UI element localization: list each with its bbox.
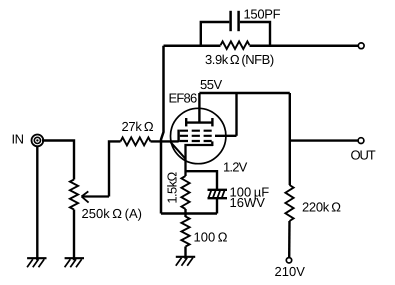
wire wiper riser to grid line: [109, 141, 121, 196]
wire jack to pot top: [42, 141, 74, 180]
capacitor 100uF plates: [208, 190, 228, 198]
capacitor 150PF plates: [231, 11, 239, 31]
potentiometer 250k ohm (A): [70, 180, 78, 210]
grid g3 row 2 (dashed): [180, 135, 212, 137]
svg-text:210V: 210V: [275, 264, 306, 279]
svg-text:1.5kΩ: 1.5kΩ: [165, 171, 180, 203]
anode lead: [198, 93, 200, 123]
svg-text:250k Ω (A): 250k Ω (A): [82, 206, 142, 221]
grid g2 row 1 (dashed): [180, 130, 212, 132]
wire 1.5k bottom stub: [184, 209, 186, 214]
resistor 100 ohm: [181, 217, 189, 247]
terminal OUT: [358, 138, 364, 144]
svg-text:3.9k Ω (NFB): 3.9k Ω (NFB): [205, 52, 274, 67]
ground under 100 ohm: [176, 257, 195, 266]
svg-text:55V: 55V: [200, 77, 222, 92]
ground under jack: [27, 258, 46, 267]
wire 27k to tube grid: [151, 140, 179, 142]
wire cathode branch to capacitor: [186, 171, 218, 190]
resistor 220k ohm: [285, 185, 293, 221]
svg-text:1.2V: 1.2V: [223, 160, 248, 175]
wire cathode bottom rail: [161, 212, 217, 214]
grid side bar: [177, 130, 179, 143]
wire anode column down: [289, 93, 291, 185]
wire screen riser: [235, 93, 237, 136]
anode plate: [185, 118, 214, 126]
ground under pot: [65, 258, 84, 267]
svg-text:220k Ω: 220k Ω: [302, 200, 341, 215]
cathode: [186, 141, 214, 176]
resistor 3.9k ohm NFB: [221, 41, 250, 49]
svg-text:150PF: 150PF: [244, 7, 281, 22]
svg-text:IN: IN: [12, 132, 24, 147]
svg-text:27k Ω: 27k Ω: [122, 119, 154, 134]
wire feedback horizontal: [164, 45, 359, 48]
svg-text:100 Ω: 100 Ω: [194, 230, 228, 245]
resistor 1.5k ohm: [181, 176, 189, 209]
wire 100 ohm to ground: [184, 247, 186, 259]
input jack J1: [32, 135, 44, 147]
wire to 210V terminal: [288, 221, 291, 258]
svg-text:OUT: OUT: [351, 148, 376, 163]
wire capacitor bottom lead: [216, 198, 218, 213]
tube V1 EF86 envelope: [171, 108, 226, 163]
svg-text:EF86: EF86: [169, 91, 197, 106]
grid g1 row 3 (dashed): [180, 140, 212, 142]
capacitor 150PF branch wires: [201, 22, 270, 46]
resistor 27k ohm: [121, 137, 151, 145]
wire pot bottom to ground: [73, 210, 75, 261]
cathode internal diagonal: [171, 142, 186, 158]
wire NFB vertical (with jog over grid wire): [161, 46, 164, 214]
wire OUT branch: [290, 139, 358, 141]
wire 55V top rail: [199, 92, 289, 94]
screen lead (g2 to riser): [215, 135, 237, 137]
wire rail to 100 ohm: [184, 214, 186, 218]
terminal 210V: [286, 258, 291, 263]
wire jack ground drop: [36, 147, 38, 261]
potentiometer wiper arrow: [82, 191, 110, 202]
svg-text:16WV: 16WV: [230, 195, 266, 210]
terminal NFB input: [358, 43, 364, 49]
